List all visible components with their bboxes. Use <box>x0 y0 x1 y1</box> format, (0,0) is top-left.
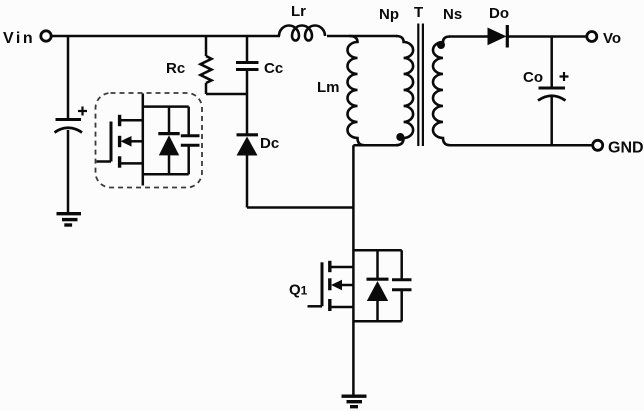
wire Vo rail to Co <box>550 37 553 89</box>
svg-text:Co: Co <box>523 69 543 86</box>
svg-text:Rc: Rc <box>166 60 185 77</box>
svg-text:Vin: Vin <box>3 30 35 47</box>
wire Q1 source to ground <box>352 267 355 396</box>
wire Do to Vo <box>508 35 587 38</box>
capacitor Q1 output capacitance <box>392 250 412 321</box>
svg-text:Lm: Lm <box>317 79 340 96</box>
wire Cc to Dc <box>246 70 249 136</box>
capacitor Co (polarized) <box>538 72 569 101</box>
svg-text:Ns: Ns <box>443 6 462 23</box>
wire Co to GND rail <box>550 97 553 145</box>
diode Do <box>488 25 508 48</box>
svg-text:GND: GND <box>608 140 644 157</box>
ground input <box>57 214 82 225</box>
transistor Q1 MOSFET <box>308 261 354 311</box>
wire Lr to transformer <box>327 35 397 38</box>
ground Q1 <box>342 396 367 407</box>
svg-text:Np: Np <box>379 6 399 23</box>
svg-text:Lr: Lr <box>291 3 306 20</box>
transformer core <box>418 24 423 147</box>
wire Ns to Do <box>449 35 488 38</box>
wire input cap drop <box>67 36 70 119</box>
svg-text:Do: Do <box>489 5 509 22</box>
wire clamp top rail <box>143 105 189 108</box>
capacitor Cc <box>236 36 259 70</box>
svg-text:Cc: Cc <box>264 60 283 77</box>
capacitor clamp output capacitance <box>181 107 200 175</box>
clamp switch dashed box <box>96 93 203 188</box>
inductor Lr <box>279 26 325 41</box>
transistor clamp MOSFET <box>97 94 143 186</box>
winding Np primary <box>396 36 413 145</box>
resistor Rc <box>201 36 212 94</box>
wire input cap to ground <box>67 130 70 213</box>
winding Ns secondary <box>433 37 450 146</box>
wire switch node vertical <box>352 145 355 267</box>
wire clamp bottom rail <box>143 173 189 176</box>
node Ns polarity dot <box>437 41 445 49</box>
wire top rail Vin to Lr <box>52 35 281 38</box>
capacitor Cin (input, polarized) <box>55 107 88 133</box>
svg-text:Dc: Dc <box>260 135 279 152</box>
diode Dc <box>237 135 259 156</box>
wire Rc-Cc junction <box>206 93 248 96</box>
wire Dc to switch node <box>246 155 249 208</box>
terminal Vo <box>587 32 597 42</box>
svg-text:Q1: Q1 <box>289 282 308 299</box>
diode clamp body diode <box>158 107 179 175</box>
node Np polarity dot <box>396 133 404 141</box>
inductor Lm magnetizing <box>348 36 365 145</box>
wire Q1 top rail <box>353 249 401 252</box>
wire transformer bottom <box>353 144 398 147</box>
diode Q1 body diode <box>367 250 389 321</box>
wire Q1 bottom rail <box>353 320 401 323</box>
svg-text:Vo: Vo <box>603 30 621 47</box>
wire GND rail <box>449 144 593 147</box>
terminal GND <box>593 140 603 150</box>
terminal Vin <box>41 31 51 41</box>
wire switch node horizontal <box>247 206 354 209</box>
svg-text:T: T <box>414 4 423 21</box>
